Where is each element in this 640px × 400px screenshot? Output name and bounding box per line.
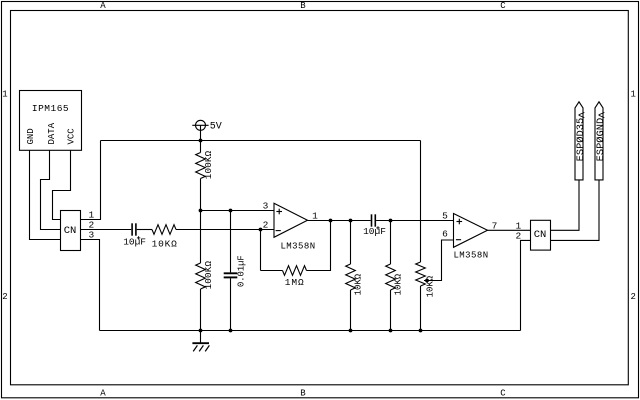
svg-text:2: 2 <box>2 292 7 302</box>
svg-text:5V: 5V <box>210 122 222 133</box>
pin number U1B-7 <box>492 220 498 231</box>
wire U1A output to C3 <box>331 220 371 222</box>
svg-text:IPM165: IPM165 <box>32 103 69 114</box>
svg-text:1: 1 <box>312 210 318 221</box>
svg-text:DATA: DATA <box>47 122 57 144</box>
junction R5 top node <box>389 219 393 223</box>
connector CN2 <box>531 220 551 250</box>
svg-text:CN: CN <box>64 225 77 237</box>
junction U1A output node <box>329 219 333 223</box>
wire R3 to op-amp U1A pin2 <box>176 229 274 231</box>
wire U1A output <box>308 220 331 222</box>
svg-text:1: 1 <box>630 89 635 99</box>
junction rail R5 <box>389 329 393 333</box>
wire flag ESP D35 to CN2 pin1 <box>551 180 580 230</box>
resistor R1 100K ohm (upper bias) <box>196 141 214 211</box>
svg-text:ESPØD35: ESPØD35 <box>575 118 587 162</box>
svg-text:10µF: 10µF <box>123 236 146 247</box>
svg-text:10KΩ: 10KΩ <box>426 275 436 297</box>
junction node bias at R1 bottom <box>199 209 203 213</box>
wire bias node to op-amp U1A pin3 <box>201 210 275 212</box>
svg-text:7: 7 <box>492 220 498 231</box>
svg-text:B: B <box>300 389 306 399</box>
wire feedback bottom right segment <box>307 221 331 271</box>
svg-text:100KΩ: 100KΩ <box>203 261 214 290</box>
wire C3 to op-amp U1B pin5 <box>376 220 453 222</box>
pin number CN1-1 <box>88 210 94 221</box>
pin number CN1-2 <box>88 220 94 231</box>
wire top 5V rail <box>101 140 421 142</box>
svg-text:0.01µF: 0.01µF <box>236 255 246 287</box>
pin number CN2-1 <box>516 220 522 231</box>
IC IPM165 doppler sensor module <box>20 91 82 151</box>
svg-text:C: C <box>500 1 506 11</box>
pin number U1A-2 <box>263 220 269 231</box>
resistor R7 1M ohm feedback <box>283 266 307 288</box>
junction rail R6 <box>419 329 423 333</box>
pin number CN2-2 <box>516 231 522 242</box>
net flag ESP D35 <box>575 102 587 180</box>
pin number U1B-6 <box>442 229 448 240</box>
svg-text:LM358N: LM358N <box>453 250 488 260</box>
svg-text:1: 1 <box>2 89 7 99</box>
svg-text:<: < <box>578 109 585 123</box>
wire IPM165 VCC to CN1 pin1 <box>53 150 71 219</box>
wire 5V stub to rail <box>200 125 202 140</box>
svg-text:3: 3 <box>263 200 269 211</box>
resistor R4 10K ohm to ground <box>346 221 364 331</box>
capacitor C3 10uF electrolytic <box>363 214 386 237</box>
resistor R5 10K ohm bias <box>386 221 404 331</box>
resistor R6 10K ohm gain from 5V rail <box>416 141 436 331</box>
svg-text:ESPØGND: ESPØGND <box>595 118 607 162</box>
capacitor C2 0.01uF <box>224 211 247 331</box>
junction 5V rail node <box>199 139 203 143</box>
svg-text:1MΩ: 1MΩ <box>285 277 305 288</box>
junction node U1A inverting input <box>259 228 263 232</box>
svg-text:2: 2 <box>263 220 269 231</box>
wire R6 tap to U1B pin6 <box>424 240 454 281</box>
junction rail C2 <box>229 329 233 333</box>
net flag ESP GND <box>595 102 607 180</box>
wire U1B output to CN2 pin1 <box>488 229 531 231</box>
wire IPM165 GND to CN1 pin3 <box>30 150 61 239</box>
svg-text:A: A <box>100 1 106 11</box>
resistor R3 10K ohm (series input) <box>152 225 178 250</box>
capacitor C1 10uF electrolytic <box>123 223 152 247</box>
svg-text:LM358N: LM358N <box>280 241 315 251</box>
pin number CN1-3 <box>88 230 94 241</box>
svg-text:VCC: VCC <box>66 128 76 145</box>
svg-text:CN: CN <box>534 229 547 241</box>
junction rail R2 <box>199 329 203 333</box>
pin number U1B-5 <box>442 210 448 221</box>
wire flag ESP GND to CN2 pin2 <box>551 180 600 241</box>
ground symbol <box>192 331 209 352</box>
op-amp U1B LM358N second stage <box>453 214 488 261</box>
junction R6 feedback tap <box>425 279 429 283</box>
wire CN2 pin2 to ground rail <box>521 240 531 330</box>
wire bottom ground rail <box>100 330 521 332</box>
pin number U1A-3 <box>263 200 269 211</box>
wire IPM165 DATA to CN1 pin2 <box>41 150 61 229</box>
svg-text:C: C <box>500 389 506 399</box>
resistor R2 100K ohm (lower bias) <box>196 211 214 331</box>
svg-text:6: 6 <box>442 229 448 240</box>
power 5V supply symbol <box>192 120 222 132</box>
svg-text:10KΩ: 10KΩ <box>152 238 178 249</box>
svg-text:B: B <box>300 1 306 11</box>
wire CN1 pin1 to 5V rail riser <box>81 141 101 220</box>
wire CN1 pin3 to ground rail drop <box>81 240 100 331</box>
wire CN1 pin2 to capacitor C1 <box>81 229 132 231</box>
svg-text:5: 5 <box>442 210 448 221</box>
wire feedback from inverting node down <box>260 230 262 271</box>
connector CN1 <box>61 211 81 251</box>
svg-text:10µF: 10µF <box>363 226 386 237</box>
wire feedback bottom left segment <box>261 270 283 272</box>
svg-text:10KΩ: 10KΩ <box>394 273 404 295</box>
pin number U1A-1 <box>312 210 318 221</box>
junction R4 top node <box>349 219 353 223</box>
svg-text:10KΩ: 10KΩ <box>354 273 364 295</box>
svg-text:100KΩ: 100KΩ <box>203 150 214 179</box>
op-amp U1A LM358N first stage <box>274 203 316 251</box>
svg-text:<: < <box>598 109 605 123</box>
junction rail R4 <box>349 329 353 333</box>
svg-text:GND: GND <box>26 128 36 144</box>
svg-text:A: A <box>100 389 106 399</box>
svg-text:2: 2 <box>630 292 635 302</box>
junction node C2 top <box>229 209 233 213</box>
